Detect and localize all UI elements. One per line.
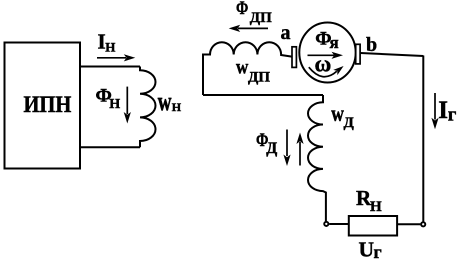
label I_Н — [98, 30, 116, 55]
svg-text:г: г — [374, 242, 382, 260]
wire resistor to right node — [397, 223, 420, 225]
svg-text:ω: ω — [315, 52, 332, 77]
armature flux arrow — [308, 52, 344, 59]
flux arrow Ф_ДП — [229, 25, 268, 32]
wire right rail vertical — [422, 56, 424, 222]
label U_г — [359, 237, 382, 260]
wire right brush to right rail — [360, 53, 423, 56]
wire bottom left — [80, 146, 140, 148]
label Ф_я — [315, 29, 338, 53]
wire top left — [80, 66, 140, 68]
svg-text:w: w — [331, 102, 344, 127]
junction node left — [324, 222, 328, 226]
current arrow I_г — [431, 93, 438, 129]
brush right — [356, 44, 360, 64]
svg-text:Ф: Ф — [236, 0, 248, 18]
junction node right — [421, 222, 425, 226]
flux arrow Ф_Д up — [296, 133, 303, 166]
rotation arrow ω — [309, 63, 346, 76]
svg-text:г: г — [448, 104, 457, 125]
svg-text:я: я — [330, 33, 339, 52]
svg-text:Д: Д — [266, 140, 277, 157]
label w_ДП — [236, 56, 270, 85]
block ИПН (voltage source) — [5, 43, 81, 169]
label w_Н — [158, 86, 182, 116]
winding w_Н coil — [140, 67, 156, 148]
flux label Ф_ДП — [236, 0, 272, 26]
svg-text:w: w — [158, 86, 172, 116]
label R_Н — [356, 186, 382, 215]
resistor R_Н — [349, 216, 397, 236]
current arrow I_Н — [97, 54, 135, 61]
svg-text:Д: Д — [344, 115, 355, 131]
svg-text:U: U — [359, 237, 375, 260]
brush left — [292, 47, 296, 68]
label w_Д — [331, 102, 354, 131]
flux label Ф_Д — [256, 129, 277, 157]
svg-text:ИПН: ИПН — [24, 92, 72, 117]
flux arrow Ф_Д down — [283, 130, 290, 167]
winding w_ДП coil — [203, 42, 292, 95]
svg-text:Н: Н — [109, 97, 120, 112]
flux arrow Ф_Н — [124, 87, 131, 124]
label I_г — [438, 97, 457, 125]
svg-text:I: I — [438, 97, 448, 124]
machine armature circle — [299, 23, 355, 83]
wire node to resistor — [329, 223, 349, 225]
svg-text:ДП: ДП — [248, 69, 270, 85]
svg-text:Н: Н — [105, 40, 115, 55]
svg-text:ДП: ДП — [250, 10, 272, 26]
svg-text:Н: Н — [172, 100, 182, 114]
svg-text:a: a — [281, 22, 291, 44]
winding w_Д coil — [308, 95, 326, 221]
flux label Ф_Н — [96, 85, 121, 111]
wire loop left horizontal — [203, 94, 323, 96]
svg-text:Н: Н — [370, 199, 382, 215]
